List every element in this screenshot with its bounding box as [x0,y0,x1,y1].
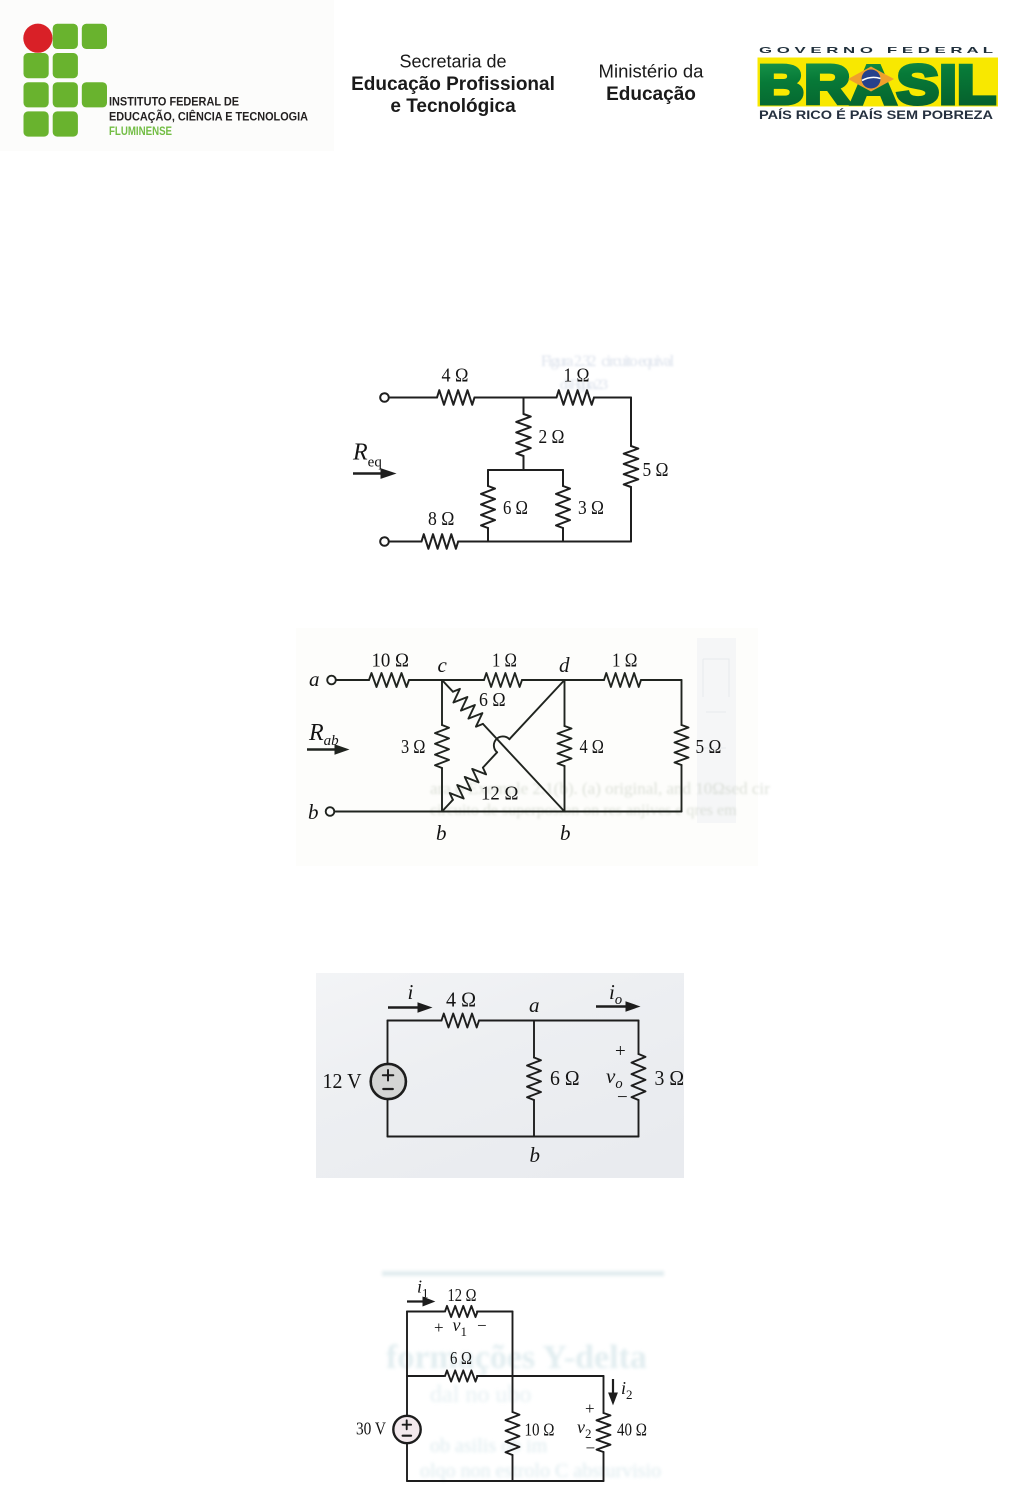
CIRCUIT 2 [326,673,689,816]
svg-text:circuito de superposion on res: circuito de superposion on res anjives e… [430,802,737,819]
IFF logo green squares [24,24,108,137]
labels circuit 1 [352,365,669,531]
wire 3ohm to bottom [638,1100,640,1137]
resistor R 3ohm vertical [556,486,570,528]
wire right side bottom [630,487,632,542]
svg-text:INSTITUTO FEDERAL DE: INSTITUTO FEDERAL DE [109,95,239,109]
source plus [383,1070,394,1081]
resistor R 4ohm [558,726,572,766]
bleed-through text circuit 4 [382,1271,664,1482]
svg-text:+: + [585,1399,595,1418]
resistor R 10ohm [369,673,409,687]
wire b to 12ohm diagonal [442,800,453,812]
wire c to 6ohm diagonal [442,680,453,692]
header text Ministerio [599,61,705,106]
resistor R 12ohm diagonal [450,768,486,800]
svg-text:v2: v2 [577,1417,592,1441]
svg-text:−: − [586,1439,596,1458]
resistor R 4ohm c3 [442,1014,480,1028]
arrow i2 down [609,1379,617,1404]
svg-text:i: i [408,980,414,1004]
svg-text:5 Ω: 5 Ω [696,736,722,758]
svg-text:6 Ω: 6 Ω [450,1348,472,1368]
svg-text:Ministério da: Ministério da [599,61,705,82]
labels circuit 2 [308,650,721,846]
svg-text:−: − [617,1087,628,1108]
svg-text:a: a [309,667,320,691]
wire 3ohm to bottom [441,768,443,812]
wire c to 1ohm [442,679,484,681]
svg-text:4 Ω: 4 Ω [580,736,604,758]
wire 2ohm to parallel bar [523,456,525,470]
svg-text:3 Ω: 3 Ω [401,736,425,758]
svg-text:d: d [559,653,570,677]
source 12V circle [371,1064,406,1099]
resistor R 5ohm vertical [624,446,639,487]
top branch wire left [407,1311,444,1313]
wire bar down to 3ohm [562,470,564,486]
resistor R 3ohm [435,725,449,768]
svg-text:v1: v1 [453,1315,468,1339]
svg-text:dal no ubo: dal no ubo [430,1382,531,1408]
svg-text:FLUMINENSE: FLUMINENSE [109,124,172,138]
wire 4ohm to junction to 1ohm [475,397,557,399]
wire top left to 4ohm [388,1020,442,1022]
resistor R 8ohm [422,534,459,549]
wire 12ohm to hop [483,752,497,767]
wire 4ohm to node a to right corner [479,1020,639,1022]
svg-text:4 Ω: 4 Ω [442,365,469,387]
svg-text:Secretaria de: Secretaria de [399,52,506,72]
wire 5ohm to bottom [681,765,683,812]
svg-text:b: b [530,1143,541,1167]
svg-text:6 Ω: 6 Ω [479,689,506,711]
svg-text:b: b [308,800,319,824]
wire source down [406,1443,408,1481]
svg-text:+: + [434,1318,444,1337]
wire 4ohm to bottom [564,766,566,812]
resistor R 3ohm c3 [632,1054,646,1100]
right wire down [603,1376,605,1413]
svg-text:PAÍS RICO É PAÍS SEM POBREZA: PAÍS RICO É PAÍS SEM POBREZA [759,109,993,122]
wire top-left to R 4ohm [389,397,437,399]
wire 1ohm to top right corner [641,679,682,681]
svg-text:5 Ω: 5 Ω [643,459,669,481]
wire 10ohm to node c [409,679,442,681]
wire right corner down [681,680,683,725]
resistor R 4ohm [437,390,475,405]
svg-text:2 Ω: 2 Ω [539,426,565,448]
resistor R 6ohm vertical [481,486,495,528]
wire 6ohm to bottom node b right [483,724,565,812]
scanned paper area circuit 2 [296,628,758,866]
IFF logo institute name [109,95,308,138]
Rab arrow [307,745,348,754]
wire hop to d [509,680,564,739]
source minus [383,1088,393,1090]
resistor R 6ohm c4 [445,1370,478,1381]
terminal b [326,807,335,816]
scanned page tint circuit 3 [316,973,684,1178]
svg-text:c: c [438,653,448,677]
wire right down [638,1021,640,1055]
wire a to 10ohm [336,679,369,681]
wire 1ohm to top-right corner [594,397,631,399]
svg-text:3 Ω: 3 Ω [655,1066,685,1090]
left wire top [406,1312,408,1416]
terminal bottom-left [380,537,389,546]
middle wire bottom [512,1455,514,1481]
svg-text:12 Ω: 12 Ω [448,1285,477,1305]
svg-text:+: + [615,1041,626,1062]
crossing hop arc [494,736,510,752]
svg-text:formações Y-delta: formações Y-delta [386,1339,647,1376]
CIRCUIT 3 [371,1014,646,1137]
bottom wire [458,541,631,543]
wire right side top [630,398,632,447]
wire 6ohm to bottom [487,528,489,542]
wire 1ohm to node d [522,679,565,681]
svg-text:i2: i2 [621,1378,633,1402]
6ohm branch wire right [477,1375,604,1377]
resistor R 10ohm c4 [506,1412,520,1455]
bleed-through text above circuit 1 [541,353,674,393]
resistor R 6ohm c3 [527,1058,541,1101]
arrow i1 [407,1297,434,1306]
wire 6ohm to bottom [533,1100,535,1137]
svg-text:3 Ω: 3 Ω [578,497,604,519]
labels circuit 4 [356,1277,647,1458]
wire c down [441,680,443,725]
labels circuit 3 [323,980,685,1167]
svg-text:b: b [436,821,447,845]
bleed-through text below circuit 2 [430,779,770,819]
resistor R 40ohm c4 [597,1413,611,1452]
svg-text:6 Ω: 6 Ω [503,497,528,519]
svg-text:12 V: 12 V [323,1069,362,1093]
svg-text:1 Ω: 1 Ω [612,650,637,672]
source 30V circle [393,1416,420,1443]
svg-text:b: b [560,821,571,845]
IFF logo red circle [23,24,52,53]
svg-text:a: a [529,993,540,1017]
source 30V plus [403,1420,412,1429]
middle vertical wire top [512,1312,514,1413]
wire source down [387,1099,389,1136]
bottom wire c3 [388,1136,639,1138]
terminal top-left [380,393,389,402]
svg-text:4 Ω: 4 Ω [446,988,476,1012]
wire bar down to 6ohm [487,470,489,486]
source 30V minus [403,1435,412,1437]
resistor R 2ohm vertical [516,414,531,456]
svg-text:Req: Req [352,440,382,471]
svg-text:30 V: 30 V [356,1419,386,1439]
resistor R 12ohm c4 [445,1306,478,1317]
resistor R 6ohm diagonal [453,689,483,727]
resistor R 1ohm right [604,673,641,687]
bleed-through faint box right of circuit 2 [702,659,729,748]
svg-text:1 Ω: 1 Ω [564,365,590,387]
svg-text:1 Ω: 1 Ω [492,650,517,672]
svg-text:Figura 2.32 circuito equival: Figura 2.32 circuito equival [541,353,674,370]
arrow i [388,1003,431,1012]
svg-text:6 Ω: 6 Ω [550,1066,580,1090]
arrow io [596,1002,639,1011]
svg-text:Educação: Educação [606,84,696,105]
parallel bar wire [488,469,563,471]
resistor R 1ohm [557,390,595,405]
IFF institute logo background [0,0,334,151]
svg-text:12 Ω: 12 Ω [481,783,518,805]
wire bottom-left to R 8ohm [389,541,422,543]
svg-text:40 Ω: 40 Ω [617,1420,647,1440]
Brasil governo federal logo [758,45,999,122]
svg-text:10 Ω: 10 Ω [525,1420,555,1440]
svg-text:8 Ω: 8 Ω [428,508,454,530]
top branch wire right [477,1311,513,1313]
right wire bottom [603,1452,605,1481]
CIRCUIT 1 [380,390,638,549]
wire d down [564,680,566,726]
bottom wire [335,811,682,813]
svg-text:10 Ω: 10 Ω [372,650,410,672]
bottom wire c4 [407,1480,604,1482]
Req arrow [353,469,395,478]
wire 3ohm to bottom [562,528,564,542]
svg-text:Educação Profissional: Educação Profissional [351,74,555,95]
svg-text:olqo non estrolo C absturvisio: olqo non estrolo C absturvisio [420,1460,661,1482]
header text Secretaria [351,52,555,118]
resistor R 5ohm [675,725,689,765]
wire node a down [533,1021,535,1058]
svg-text:−: − [477,1316,487,1335]
wire source up [387,1021,389,1064]
svg-text:e Tecnológica: e Tecnológica [390,96,516,117]
resistor R 1ohm left [484,673,522,687]
wire d to 1ohm right [565,679,605,681]
CIRCUIT 4 [393,1306,610,1481]
wire junction down to 2ohm [523,398,525,415]
6ohm branch wire left [407,1375,444,1377]
terminal a [327,676,336,685]
svg-text:EDUCAÇÃO, CIÊNCIA E TECNOLOGIA: EDUCAÇÃO, CIÊNCIA E TECNOLOGIA [109,109,308,124]
